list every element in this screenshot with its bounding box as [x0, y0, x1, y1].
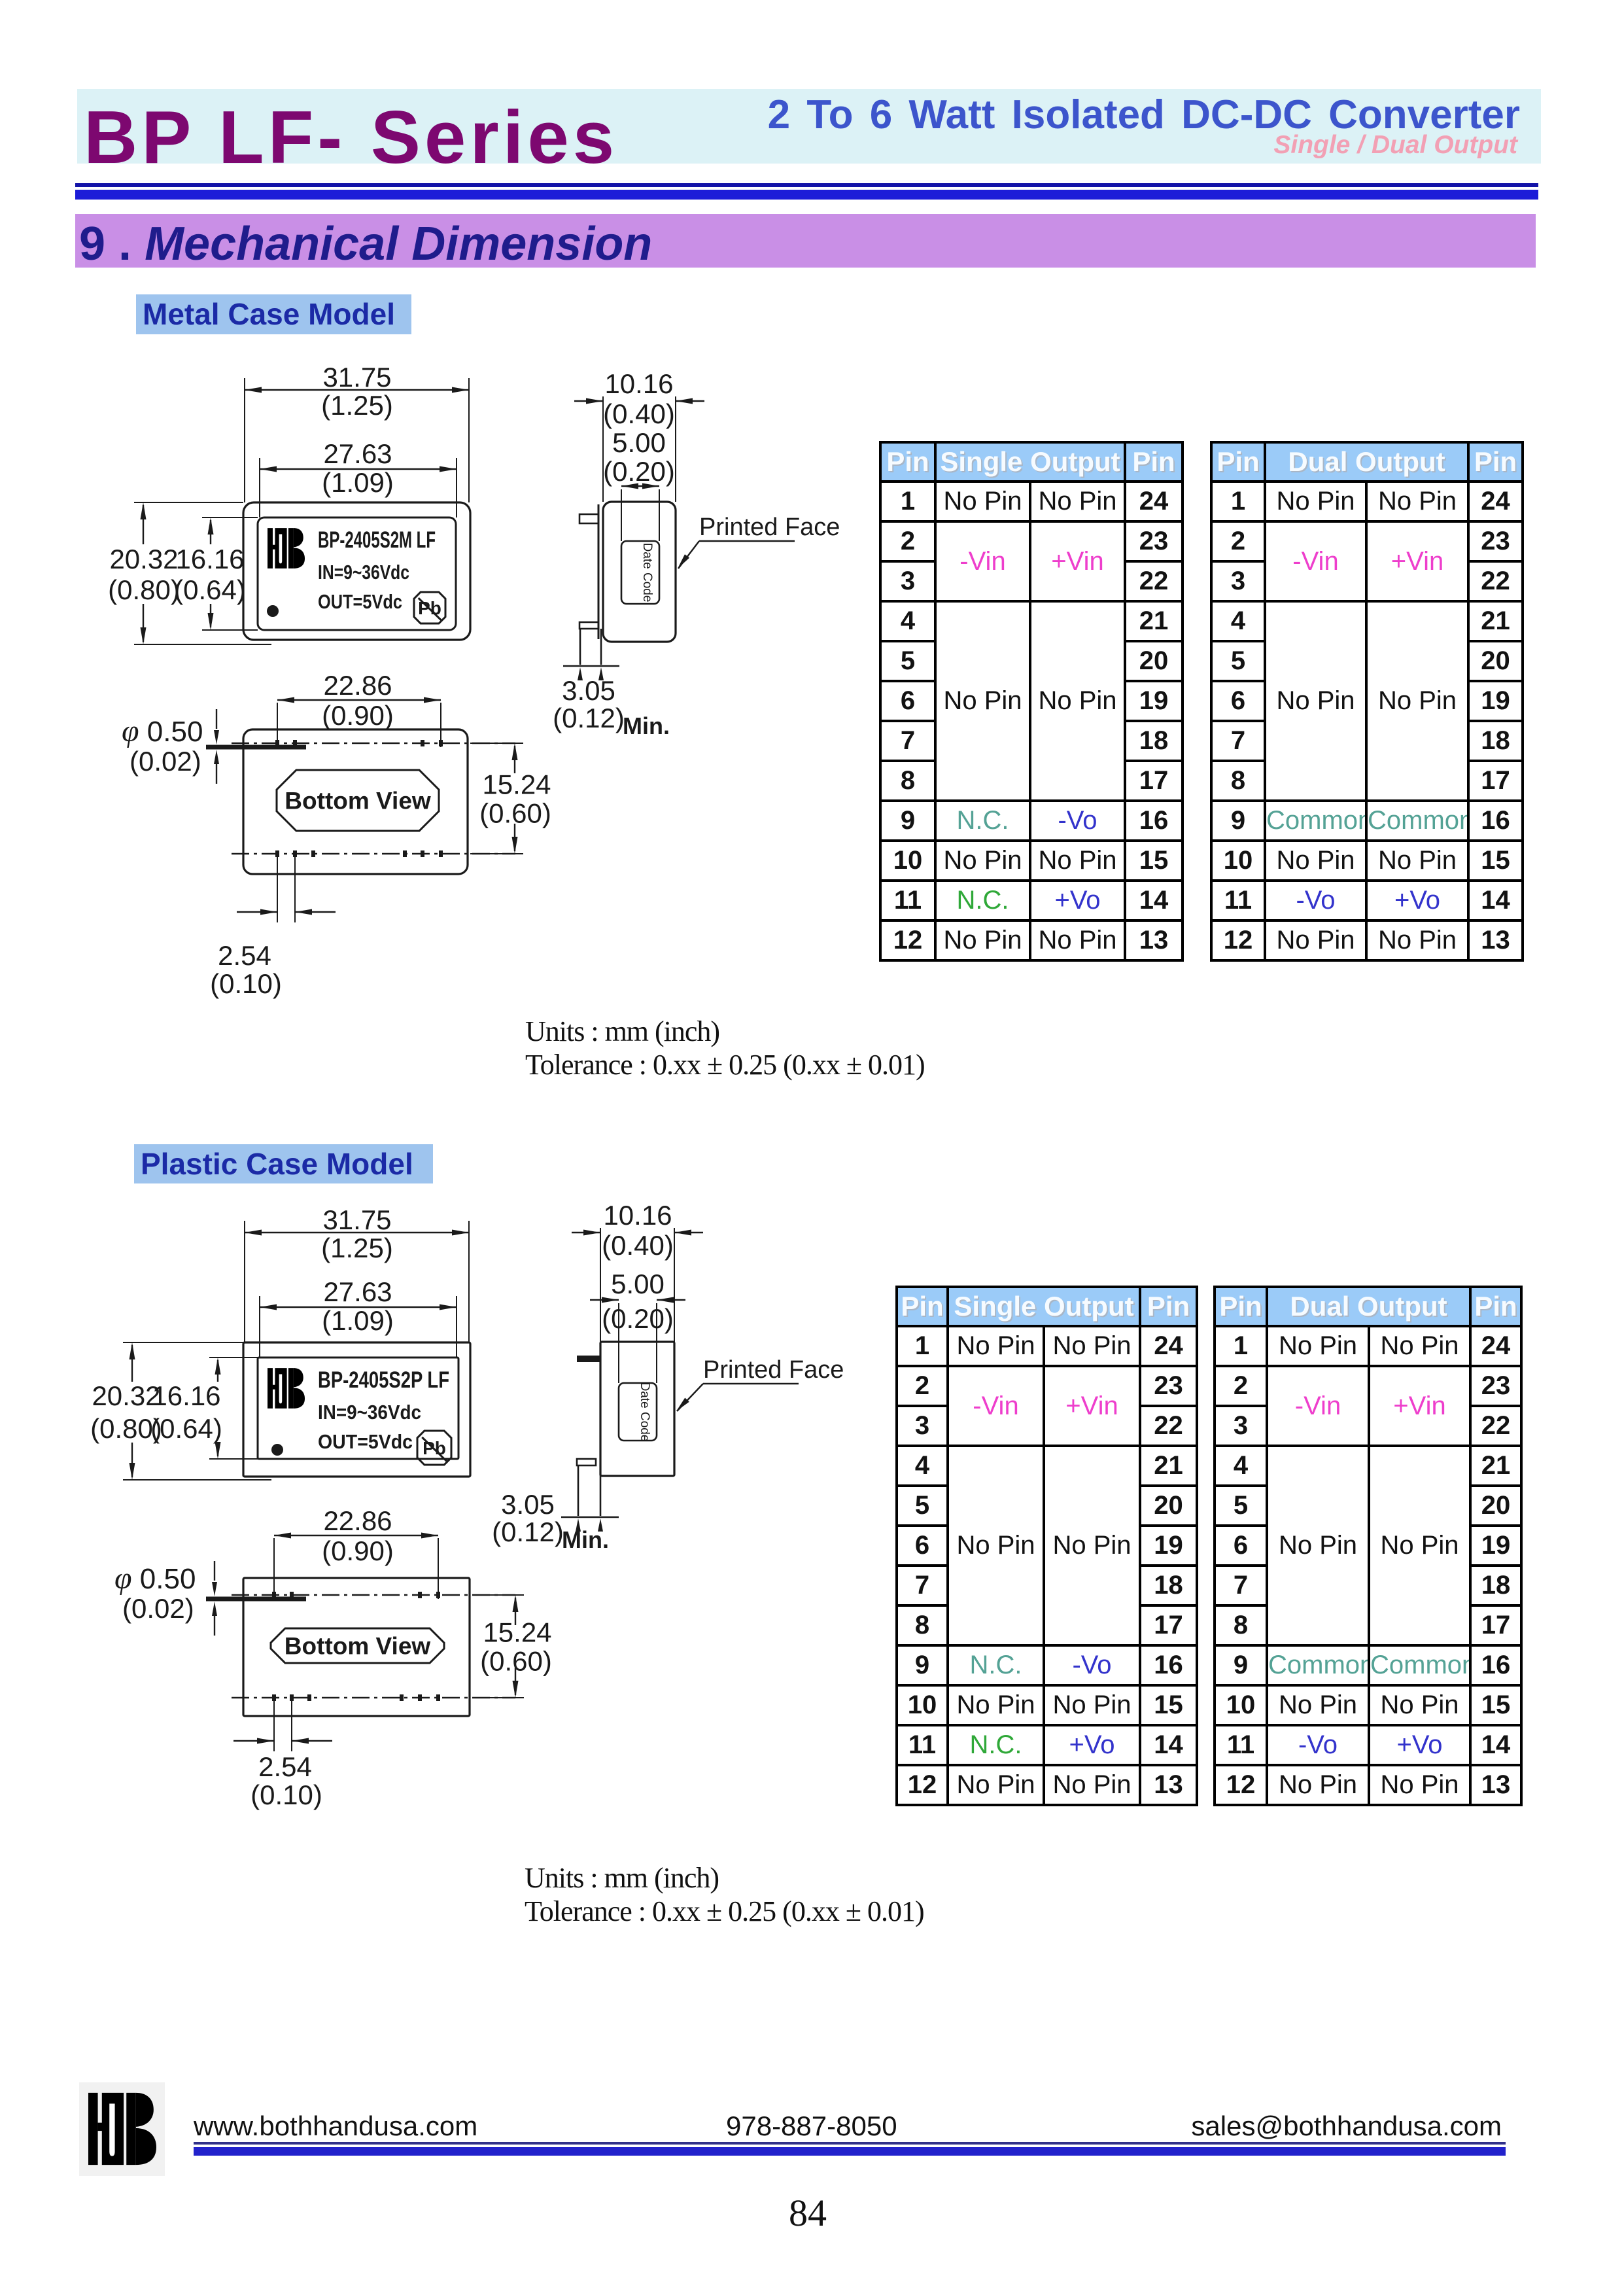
section bar: [75, 214, 1536, 268]
svg-text:15.24: 15.24: [482, 769, 551, 800]
svg-text:15.24: 15.24: [483, 1617, 551, 1648]
svg-text:OUT=5Vdc: OUT=5Vdc: [318, 1430, 413, 1453]
svg-text:(0.20): (0.20): [602, 1303, 674, 1334]
header band: [77, 89, 1541, 164]
dim 20.32 (0.80): [143, 505, 144, 544]
footer contact line: [194, 2111, 477, 2142]
logo on case: [268, 528, 305, 569]
svg-text:Date Code: Date Code: [638, 1382, 651, 1442]
converter title: [654, 92, 1520, 138]
svg-text:3.05: 3.05: [501, 1489, 555, 1520]
svg-text:Min.: Min.: [623, 712, 670, 739]
svg-text:OUT=5Vdc: OUT=5Vdc: [318, 590, 402, 613]
double rule: [75, 183, 1538, 187]
svg-text:(1.09): (1.09): [322, 467, 394, 498]
dim 31.75 (1.25): [245, 389, 469, 391]
bottom view label plate: [277, 770, 439, 831]
pin row centerlines: [232, 1594, 515, 1596]
svg-text:(0.02): (0.02): [122, 1593, 194, 1624]
bottom view label plate: [271, 1628, 444, 1663]
dim 15.24 (0.60): [515, 1598, 516, 1625]
footer rule: [194, 2142, 1506, 2145]
svg-text:(1.09): (1.09): [322, 1305, 394, 1336]
svg-text:Bottom View: Bottom View: [285, 1633, 431, 1660]
svg-text:2.54: 2.54: [258, 1751, 312, 1782]
top view inner case (printed area): [258, 1358, 458, 1459]
side view top pin stub: [579, 514, 598, 523]
logo on case: [268, 1368, 305, 1409]
top view inner case (printed area): [258, 517, 456, 630]
svg-text:5.00: 5.00: [611, 1269, 665, 1299]
pin diameter 0.50 emphasis: [206, 1597, 306, 1602]
svg-text:(0.64): (0.64): [150, 1413, 222, 1444]
plastic case model label: [134, 1144, 433, 1183]
dim 2.54 (0.10): [277, 856, 278, 922]
dim 27.63 (1.09): [260, 468, 457, 470]
dim 5.00 (0.20): [590, 1299, 619, 1301]
dim 10.16 (0.40): [572, 1232, 600, 1233]
svg-text:16.16: 16.16: [152, 1380, 220, 1411]
dim 22.86 (0.90): [274, 1535, 438, 1536]
dim 20.32 (0.80): [131, 1345, 133, 1382]
dim 16.16 (0.64): [210, 520, 211, 544]
svg-text:16.16: 16.16: [175, 544, 244, 574]
svg-text:IN=9~36Vdc: IN=9~36Vdc: [318, 561, 409, 584]
side view lip: [598, 504, 600, 639]
svg-text:10.16: 10.16: [604, 368, 673, 399]
dim 16.16 (0.64): [217, 1360, 218, 1382]
metal case model label: [136, 294, 411, 334]
svg-text:Printed Face: Printed Face: [703, 1356, 844, 1384]
svg-text:(1.25): (1.25): [321, 1233, 393, 1263]
dual output table (plastic): [1213, 1286, 1523, 1806]
bottom view case: [243, 729, 468, 874]
svg-text:(0.12): (0.12): [492, 1516, 564, 1547]
svg-text:(0.20): (0.20): [603, 456, 675, 487]
top view outer case: [243, 502, 470, 640]
svg-text:(0.90): (0.90): [322, 700, 394, 731]
svg-text:(0.10): (0.10): [251, 1779, 322, 1810]
dual output table (metal): [1210, 441, 1524, 962]
svg-text:31.75: 31.75: [322, 362, 391, 393]
svg-text:22.86: 22.86: [323, 1505, 392, 1536]
svg-text:22.86: 22.86: [323, 670, 392, 701]
dim 10.16 (0.40): [574, 400, 603, 402]
side view top pin stub: [577, 1356, 600, 1362]
svg-text:(0.64): (0.64): [174, 574, 246, 605]
footer logo: [79, 2082, 165, 2176]
pin diameter 0.50 emphasis: [206, 745, 306, 750]
svg-text:5.00: 5.00: [612, 427, 666, 458]
single output table (metal): [879, 441, 1184, 962]
side view bottom pin and standoff: [579, 622, 598, 629]
pin row centerlines: [232, 743, 515, 744]
dim 31.75 (1.25): [245, 1232, 469, 1233]
svg-text:2.54: 2.54: [218, 940, 271, 971]
pin 1 dot: [267, 605, 279, 617]
svg-text:(0.90): (0.90): [322, 1535, 394, 1566]
svg-text:10.16: 10.16: [603, 1200, 672, 1231]
svg-text:27.63: 27.63: [323, 438, 392, 469]
side view bottom pin and standoff: [577, 1459, 596, 1465]
page number: [772, 2191, 844, 2235]
svg-text:3.05: 3.05: [562, 675, 615, 706]
dim 5.00 (0.20): [621, 485, 659, 487]
svg-text:(1.25): (1.25): [321, 390, 393, 421]
side view body: [600, 1342, 674, 1476]
svg-text:(0.10): (0.10): [210, 968, 282, 999]
dim 15.24 (0.60): [514, 746, 515, 773]
pin 1 dot: [271, 1444, 283, 1456]
series title: [84, 95, 618, 181]
side view body: [603, 502, 676, 642]
svg-text:Printed Face: Printed Face: [699, 514, 840, 541]
svg-text:27.63: 27.63: [323, 1276, 392, 1307]
svg-text:(0.60): (0.60): [480, 1646, 552, 1677]
svg-text:φ 0.50: φ 0.50: [122, 714, 203, 748]
dim 2.54 (0.10): [273, 1700, 275, 1751]
svg-text:20.32: 20.32: [92, 1380, 160, 1411]
single output table (plastic): [895, 1286, 1198, 1806]
bottom view case: [243, 1578, 470, 1716]
svg-text:20.32: 20.32: [109, 544, 178, 574]
svg-text:φ 0.50: φ 0.50: [114, 1561, 196, 1596]
dim 27.63 (1.09): [260, 1306, 457, 1308]
svg-text:(0.02): (0.02): [130, 746, 201, 777]
single/dual subtitle: [785, 131, 1517, 160]
date code box: [621, 541, 659, 604]
dim 22.86 (0.90): [277, 699, 441, 701]
units note 2: [525, 1861, 924, 1928]
units note 1: [525, 1015, 925, 1081]
svg-text:BP-2405S2P LF: BP-2405S2P LF: [318, 1367, 449, 1393]
svg-text:Min.: Min.: [562, 1526, 609, 1553]
svg-text:IN=9~36Vdc: IN=9~36Vdc: [318, 1401, 421, 1424]
svg-text:(0.12): (0.12): [553, 703, 625, 733]
svg-text:(0.40): (0.40): [602, 1230, 674, 1261]
Pb-free symbol: [417, 1431, 451, 1465]
svg-text:(0.80): (0.80): [108, 574, 180, 605]
svg-text:(0.40): (0.40): [603, 398, 675, 429]
svg-text:BP-2405S2M LF: BP-2405S2M LF: [318, 527, 436, 553]
Pb-free symbol: [414, 592, 445, 623]
svg-text:(0.60): (0.60): [479, 798, 551, 829]
svg-text:31.75: 31.75: [322, 1204, 391, 1235]
svg-text:Date Code: Date Code: [640, 543, 654, 603]
top view outer case: [243, 1342, 470, 1477]
svg-text:Bottom View: Bottom View: [285, 788, 431, 815]
date code box: [619, 1383, 657, 1441]
